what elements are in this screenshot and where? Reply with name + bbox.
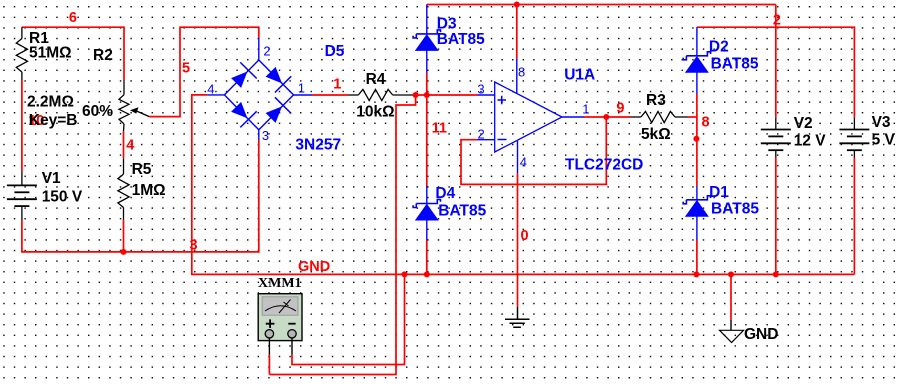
bridge D5 pin 4 stub xyxy=(207,94,224,96)
resistor R4 body xyxy=(358,89,392,100)
net label 10 (under Key=B) xyxy=(28,113,44,129)
wire net 2 top rail (D3 cathode to V2 plus) xyxy=(427,4,776,6)
junction net 8 xyxy=(693,136,699,142)
net label 1 xyxy=(333,77,341,93)
svg-text:V3: V3 xyxy=(872,114,891,131)
bridge D5 diode (pin4 to pin3) xyxy=(231,102,257,128)
net label 3 xyxy=(190,238,198,254)
resistor R3 body xyxy=(641,111,675,122)
multimeter XMM1 minus mark xyxy=(288,323,295,325)
svg-text:3: 3 xyxy=(477,82,484,97)
multimeter XMM1 plus mark xyxy=(266,319,275,328)
svg-text:10kΩ: 10kΩ xyxy=(356,104,394,121)
value TLC272CD xyxy=(565,157,643,174)
label V1 xyxy=(42,170,61,187)
multimeter XMM1 body xyxy=(258,294,302,341)
svg-text:0: 0 xyxy=(521,228,529,244)
svg-text:5: 5 xyxy=(182,61,190,77)
potentiometer R2 body xyxy=(119,95,129,124)
wire GND (D4 bottom segment) xyxy=(426,240,428,274)
diode D3 bottom pin xyxy=(426,50,428,73)
value 12 V xyxy=(794,133,827,150)
wire net 4 (R2 wiper-bottom to R5 top) xyxy=(123,131,125,158)
resistor R4 left pin xyxy=(348,94,358,96)
resistor R1 body xyxy=(16,39,27,73)
wire net 5 (R2 wiper to bridge pin 2) xyxy=(149,27,258,116)
junction net 11 at R4 output xyxy=(413,92,419,98)
wire net 2 (op-amp pin 8 drop) xyxy=(516,5,518,59)
svg-text:V1: V1 xyxy=(42,170,61,187)
bridge D5 pin 3 stub xyxy=(258,130,260,140)
label R3 xyxy=(646,92,666,109)
svg-text:1: 1 xyxy=(298,81,305,96)
bridge D5 diode (pin4 to pin2) xyxy=(231,62,257,88)
wire net 8 (R3 to D2/D1 column) xyxy=(688,116,697,118)
diode D3 xyxy=(413,30,440,51)
svg-text:12 V: 12 V xyxy=(794,133,827,150)
diode D4 xyxy=(413,200,440,221)
resistor R1 top pin xyxy=(21,27,23,38)
multimeter XMM1 plus terminal xyxy=(265,330,273,338)
multimeter XMM1 minus terminal xyxy=(288,330,296,338)
junction net 3 / R5 bottom xyxy=(121,249,127,255)
net label 8 xyxy=(702,115,710,131)
wire XMM1 minus to GND line xyxy=(292,274,405,364)
svg-text:GND: GND xyxy=(744,326,778,343)
svg-text:60%: 60% xyxy=(82,103,113,120)
svg-text:11: 11 xyxy=(432,121,447,137)
svg-text:4: 4 xyxy=(207,82,214,97)
battery V1 top pin xyxy=(21,172,23,186)
wire net 11 (R4 to op-amp plus input) xyxy=(413,94,478,96)
wire GND (V3 minus drop) xyxy=(853,158,855,275)
op-amp U1A triangle xyxy=(495,82,562,152)
net label GND (red) xyxy=(298,259,330,275)
value 2.2Mohm xyxy=(27,94,74,111)
battery V1 body xyxy=(7,185,37,206)
svg-text:TLC272CD: TLC272CD xyxy=(565,157,643,174)
svg-text:D5: D5 xyxy=(325,43,345,60)
label Key=B xyxy=(29,112,78,129)
svg-text:2: 2 xyxy=(263,44,270,59)
diode D1 top pin xyxy=(696,186,698,200)
resistor R5 bottom pin xyxy=(123,208,125,220)
diode D2 top pin xyxy=(696,27,698,56)
label V2 xyxy=(794,115,813,132)
value 1Mohm xyxy=(132,182,166,199)
pin number 2 (bridge) xyxy=(263,44,270,59)
svg-text:BAT85: BAT85 xyxy=(437,31,485,48)
multimeter XMM1 screen xyxy=(262,297,298,315)
op-amp pin 8 stub xyxy=(516,59,518,94)
pin number 3 (bridge) xyxy=(262,128,269,143)
svg-text:Key=B: Key=B xyxy=(29,112,78,129)
resistor R1 bottom pin xyxy=(21,72,23,80)
pin number 8 (op-amp) xyxy=(518,65,525,80)
label D1 xyxy=(709,184,729,201)
potentiometer R2 wiper arrow xyxy=(130,107,149,116)
diode D2 xyxy=(683,52,710,73)
svg-text:4: 4 xyxy=(126,138,134,154)
value 3N257 xyxy=(295,137,341,154)
label 60% xyxy=(82,103,113,120)
value BAT85 (D3) xyxy=(437,31,485,48)
net label 11 xyxy=(432,121,447,137)
battery V2 bottom pin xyxy=(775,150,777,157)
value BAT85 (D1) xyxy=(711,201,759,218)
junction GND / XMM1 minus xyxy=(402,271,408,277)
svg-text:R3: R3 xyxy=(646,92,666,109)
wire net 12 (D2 top to V3 plus) xyxy=(697,27,855,118)
svg-text:3: 3 xyxy=(262,128,269,143)
wire GND (ground symbol drop) xyxy=(730,274,732,319)
svg-text:BAT85: BAT85 xyxy=(438,203,486,220)
label D2 xyxy=(709,39,729,56)
svg-text:6: 6 xyxy=(69,10,77,26)
svg-text:1MΩ: 1MΩ xyxy=(132,182,166,199)
net label 2 xyxy=(773,13,781,29)
net label 4 xyxy=(126,138,134,154)
multimeter XMM1 minus lead (black) xyxy=(291,338,293,355)
wire feedback (op-amp output to minus input) xyxy=(461,117,606,184)
op-amp pin 2 stub xyxy=(478,139,495,141)
wire GND (D1 bottom segment) xyxy=(696,240,698,274)
bridge D5 pin 2 stub xyxy=(258,38,260,60)
svg-text:1: 1 xyxy=(333,77,341,93)
value 51Mohm xyxy=(29,45,72,62)
wire net 2 (V2 plus drop) xyxy=(775,5,777,118)
svg-text:R5: R5 xyxy=(132,161,152,178)
diode D1 bottom pin xyxy=(696,216,698,240)
label R5 xyxy=(132,161,152,178)
net label 5 xyxy=(182,61,190,77)
wire GND net (bridge pin 4 down and across bottom) xyxy=(192,95,855,275)
bridge rectifier D5 outline xyxy=(224,60,293,130)
label D3 xyxy=(437,16,457,33)
svg-text:BAT85: BAT85 xyxy=(711,201,759,218)
wire net 1 (bridge pin 1 to R4) xyxy=(312,94,348,96)
svg-text:D3: D3 xyxy=(437,16,457,33)
net label 6 xyxy=(69,10,77,26)
potentiometer R2 top pin xyxy=(123,80,125,95)
value 5kohm xyxy=(641,126,671,143)
label U1A xyxy=(564,67,595,84)
bridge D5 diode (pin2 to pin1) xyxy=(266,67,292,93)
label D5 xyxy=(325,43,345,60)
op-amp pin 4 stub xyxy=(517,141,519,173)
battery V1 bottom pin xyxy=(21,206,23,220)
diode D1 xyxy=(683,196,710,217)
multimeter XMM1 needle xyxy=(265,300,296,314)
svg-text:GND: GND xyxy=(298,259,330,275)
wire net 11 (D4 cathode segment) xyxy=(426,95,428,186)
svg-text:XMM1: XMM1 xyxy=(258,276,302,291)
svg-text:5kΩ: 5kΩ xyxy=(641,126,671,143)
pin number 2 (op-amp) xyxy=(478,127,485,142)
value 10kohm xyxy=(356,104,394,121)
net label 0 xyxy=(521,228,529,244)
battery V2 top pin xyxy=(775,118,777,130)
svg-text:D2: D2 xyxy=(709,39,729,56)
junction GND / D1 xyxy=(693,271,699,277)
svg-text:150 V: 150 V xyxy=(42,189,83,206)
wire net 3 (V1 minus to R5 bottom to bridge pin 3) xyxy=(22,140,259,252)
wire net 10 (R1 bottom to V1 plus) xyxy=(21,80,23,172)
resistor R3 right pin xyxy=(675,116,688,118)
wire GND (V2 minus drop) xyxy=(775,158,777,275)
label R2 xyxy=(93,47,113,64)
resistor R5 body xyxy=(118,174,129,207)
ground (earth, net 0 under op-amp) xyxy=(505,307,530,328)
multimeter XMM1 label xyxy=(258,276,302,291)
value BAT85 (D4) xyxy=(438,203,486,220)
svg-text:3: 3 xyxy=(190,238,198,254)
op-amp minus input mark xyxy=(498,139,507,141)
pin number 1 (bridge) xyxy=(298,81,305,96)
wire net 4 (R5 bottom lead) xyxy=(123,220,125,252)
junction GND / D4 xyxy=(424,271,430,277)
battery V3 top pin xyxy=(853,118,855,130)
value 150 V xyxy=(42,189,83,206)
resistor R5 top pin xyxy=(123,158,125,174)
svg-text:R4: R4 xyxy=(366,71,386,88)
svg-text:R2: R2 xyxy=(93,47,113,64)
wire XMM1 plus lead (red part) xyxy=(268,355,270,375)
op-amp pin 1 stub xyxy=(562,116,584,118)
resistor R3 left pin xyxy=(631,116,641,118)
diode D3 top pin xyxy=(426,5,428,34)
label GND (black) xyxy=(744,326,778,343)
bridge D5 diode (pin3 to pin1) xyxy=(266,97,292,123)
svg-text:51MΩ: 51MΩ xyxy=(29,45,72,62)
label V3 xyxy=(872,114,891,131)
pin number 4 (bridge) xyxy=(207,82,214,97)
pin number 3 (op-amp) xyxy=(477,82,484,97)
svg-text:2: 2 xyxy=(773,13,781,29)
svg-text:2: 2 xyxy=(478,127,485,142)
junction GND / V2 minus xyxy=(773,271,779,277)
junction net 9 output xyxy=(603,114,609,120)
label R4 xyxy=(366,71,386,88)
junction net 11 / D3-D4 column xyxy=(424,92,430,98)
ground GND (triangle, bottom right) xyxy=(720,320,744,343)
wire net 11 jog down to XMM1 plus xyxy=(269,95,415,375)
svg-text:U1A: U1A xyxy=(564,67,595,84)
bridge D5 pin 1 stub xyxy=(294,94,313,96)
svg-text:9: 9 xyxy=(616,101,624,117)
wire net 8 (D2 cathode / D1 anode column) xyxy=(696,94,698,186)
svg-text:BAT85: BAT85 xyxy=(711,56,759,73)
label D4 xyxy=(435,185,455,202)
junction GND / ground symbol xyxy=(728,271,734,277)
wire net 0 (op-amp pin 4 to ground symbol) xyxy=(517,173,519,306)
junction net 2 / op-amp pin 8 xyxy=(514,2,520,8)
battery V2 body xyxy=(761,130,791,151)
net label 9 xyxy=(616,101,624,117)
value BAT85 (D2) xyxy=(711,56,759,73)
value 5 V xyxy=(872,132,896,149)
multimeter XMM1 plus lead (black) xyxy=(268,338,270,355)
op-amp pin 3 stub xyxy=(478,94,495,96)
resistor R4 right pin xyxy=(393,94,413,96)
svg-text:D1: D1 xyxy=(709,184,729,201)
pin number 4 (op-amp) xyxy=(520,155,527,170)
svg-text:5 V: 5 V xyxy=(872,132,896,149)
svg-text:8: 8 xyxy=(518,65,525,80)
battery V3 bottom pin xyxy=(853,150,855,157)
svg-text:3N257: 3N257 xyxy=(295,137,341,154)
svg-text:8: 8 xyxy=(702,115,710,131)
potentiometer R2 bottom pin xyxy=(123,124,126,131)
wire net 6 (R1 top to R2 top) xyxy=(22,27,124,80)
svg-text:2.2MΩ: 2.2MΩ xyxy=(27,94,74,111)
svg-text:4: 4 xyxy=(520,155,527,170)
battery V3 body xyxy=(839,130,869,151)
svg-text:V2: V2 xyxy=(794,115,813,132)
label R1 xyxy=(29,30,49,47)
diode D4 bottom pin xyxy=(426,220,428,240)
op-amp plus input mark xyxy=(498,96,507,105)
pin number 1 (op-amp) xyxy=(582,102,589,117)
wire net 9 (op-amp output to R3) xyxy=(584,116,631,118)
wire net 11 (D3 anode segment) xyxy=(426,73,428,95)
diode D4 top pin xyxy=(426,186,428,204)
svg-text:D4: D4 xyxy=(435,185,455,202)
svg-text:1: 1 xyxy=(582,102,589,117)
diode D2 bottom pin xyxy=(696,72,698,94)
